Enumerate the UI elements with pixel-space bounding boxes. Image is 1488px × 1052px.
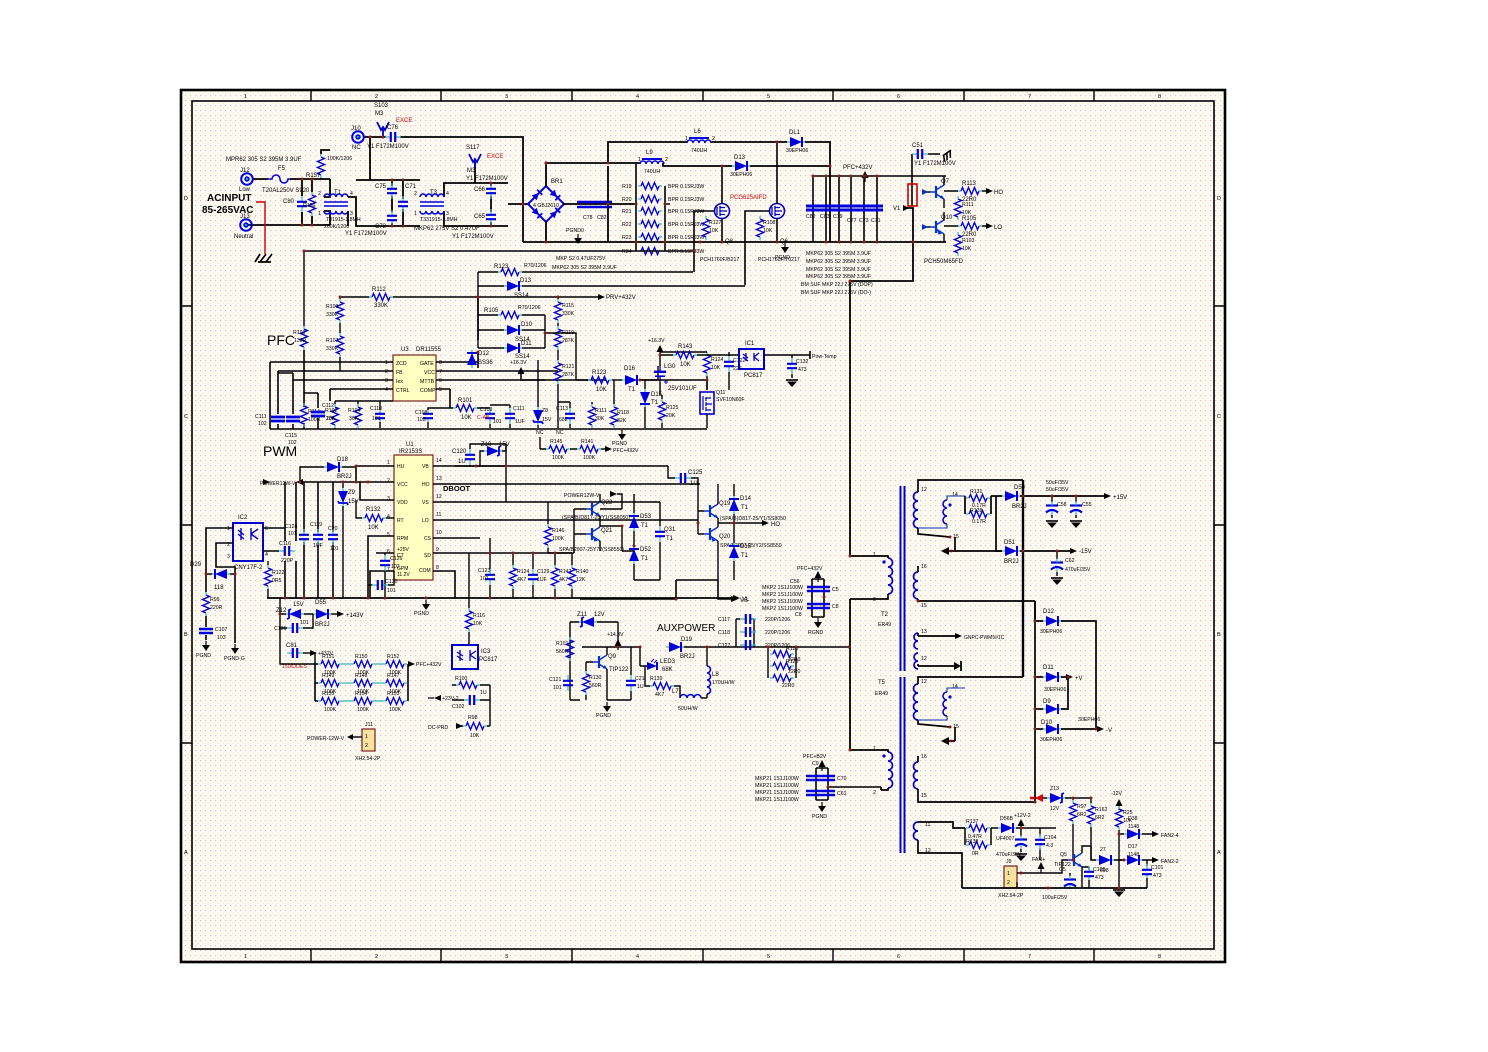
svg-text:3: 3 <box>505 954 508 960</box>
svg-text:3: 3 <box>387 496 390 502</box>
svg-text:CTRL: CTRL <box>396 388 410 394</box>
svg-text:C58: C58 <box>1057 502 1067 508</box>
svg-text:BM SUF MKP 22J 275V (DOP): BM SUF MKP 22J 275V (DOP) <box>801 282 873 288</box>
capacitor C62 <box>1051 551 1091 585</box>
power -12V <box>1111 791 1123 810</box>
svg-text:PWM: PWM <box>263 443 297 459</box>
svg-text:B: B <box>1217 632 1221 638</box>
PGND0 label <box>566 228 584 244</box>
red earth wire <box>256 202 265 254</box>
inductor L6 <box>685 129 715 154</box>
capacitor C80 <box>283 196 307 212</box>
svg-text:C61: C61 <box>837 791 847 797</box>
svg-text:+16.3V: +16.3V <box>648 338 665 344</box>
wire stage1 box <box>348 180 508 226</box>
svg-text:1UF: 1UF <box>515 419 525 425</box>
svg-text:D56B: D56B <box>1000 816 1014 822</box>
svg-text:DC-PRD: DC-PRD <box>428 725 448 731</box>
svg-text:R140: R140 <box>576 569 589 575</box>
svg-text:R162: R162 <box>1095 807 1108 813</box>
svg-text:R24: R24 <box>622 249 632 255</box>
svg-text:C111: C111 <box>513 406 525 412</box>
svg-text:PFC+432V: PFC+432V <box>613 448 639 454</box>
net DC-PRD <box>428 723 463 731</box>
svg-text:Q11: Q11 <box>716 390 726 396</box>
svg-text:12K: 12K <box>576 577 586 583</box>
svg-text:Q20: Q20 <box>719 534 731 540</box>
power +14.3V <box>607 632 624 650</box>
svg-text:4K7: 4K7 <box>517 577 526 583</box>
svg-text:Iex: Iex <box>396 379 403 385</box>
diode D19 <box>666 637 707 660</box>
svg-text:Q31: Q31 <box>664 527 676 533</box>
svg-text:14: 14 <box>952 492 958 498</box>
wires aux left <box>570 622 640 700</box>
resistor R151 <box>318 654 342 676</box>
svg-text:C82: C82 <box>597 215 607 221</box>
capacitor C20 <box>328 526 339 552</box>
capacitor C71 <box>398 184 417 212</box>
svg-text:22R0: 22R0 <box>788 669 801 675</box>
cap stack box wires <box>707 619 849 647</box>
svg-text:R151: R151 <box>322 654 335 660</box>
svg-text:MKP21 1S1J100W: MKP21 1S1J100W <box>755 790 799 796</box>
svg-text:MKP21 1S1J100W: MKP21 1S1J100W <box>755 783 799 789</box>
T5 secondary 12 <box>914 677 1024 727</box>
svg-text:7: 7 <box>387 567 390 573</box>
svg-text:8: 8 <box>439 360 442 366</box>
bulk cap bank box <box>813 176 946 242</box>
svg-text:PGND: PGND <box>612 441 627 447</box>
svg-text:C119: C119 <box>310 522 322 528</box>
svg-text:C9: C9 <box>812 761 819 767</box>
red missing part box <box>908 184 917 206</box>
svg-text:R123: R123 <box>592 370 607 376</box>
svg-text:Q7: Q7 <box>941 179 950 185</box>
svg-text:473: 473 <box>1095 875 1104 881</box>
svg-text:C121: C121 <box>549 677 562 683</box>
svg-text:C72: C72 <box>375 224 387 230</box>
opto IC1 <box>739 341 764 379</box>
svg-text:IR2153S: IR2153S <box>399 449 422 455</box>
svg-text:FAN+: FAN+ <box>1032 857 1045 863</box>
inductor L8 <box>707 647 735 698</box>
svg-text:C8: C8 <box>795 612 802 618</box>
svg-text:D55: D55 <box>315 600 327 606</box>
wires U1 left <box>300 466 394 598</box>
svg-text:D52: D52 <box>640 547 652 553</box>
diode D38 <box>1119 816 1179 839</box>
svg-text:T20AL250V S920: T20AL250V S920 <box>262 188 310 194</box>
svg-text:S103: S103 <box>374 103 389 109</box>
svg-text:SVF10N60F: SVF10N60F <box>716 397 745 403</box>
svg-text:6: 6 <box>439 378 442 384</box>
svg-text:4: 4 <box>636 954 639 960</box>
svg-text:BPR 0.15RJ3W: BPR 0.15RJ3W <box>668 235 704 241</box>
svg-text:Z13: Z13 <box>1050 786 1059 792</box>
svg-text:MKP62 305 S2 395M 3.9UF: MKP62 305 S2 395M 3.9UF <box>806 259 871 265</box>
svg-text:2: 2 <box>365 743 368 749</box>
svg-text:SS14: SS14 <box>514 293 529 299</box>
bridge BR1 <box>528 179 564 222</box>
svg-text:102: 102 <box>258 421 267 427</box>
svg-text:330K: 330K <box>326 312 339 318</box>
svg-text:C76: C76 <box>387 125 399 131</box>
svg-text:R107: R107 <box>326 338 339 344</box>
svg-text:L6: L6 <box>694 129 701 135</box>
resistor R145 <box>536 430 577 461</box>
svg-text:2: 2 <box>375 954 378 960</box>
svg-text:R139: R139 <box>650 676 663 682</box>
svg-text:C105: C105 <box>1093 867 1106 873</box>
svg-text:MKP62 305 S2 395M 3.9UF: MKP62 305 S2 395M 3.9UF <box>806 274 871 280</box>
svg-text:R121: R121 <box>562 364 575 370</box>
svg-text:FB: FB <box>396 370 403 376</box>
resistor matrix rails <box>315 664 408 701</box>
transformer T2 core <box>901 486 905 671</box>
svg-text:C126: C126 <box>390 556 403 562</box>
svg-text:220P: 220P <box>281 558 294 564</box>
svg-text:L7: L7 <box>672 689 679 695</box>
svg-text:L9: L9 <box>646 150 653 156</box>
svg-text:R97: R97 <box>1077 804 1087 810</box>
svg-text:T1: T1 <box>741 553 749 559</box>
resistor R111 <box>955 196 974 220</box>
svg-text:A: A <box>1217 850 1221 856</box>
svg-text:ER49: ER49 <box>878 622 891 628</box>
svg-text:T1: T1 <box>641 523 649 529</box>
zone tick marks and labels <box>181 90 1225 962</box>
svg-text:30EPH06: 30EPH06 <box>1044 687 1066 693</box>
net VL <box>733 595 750 603</box>
svg-text:C8: C8 <box>832 604 839 610</box>
svg-text:30EPH06: 30EPH06 <box>1078 717 1100 723</box>
ic U3 <box>385 347 442 401</box>
svg-text:1148: 1148 <box>1128 824 1139 830</box>
svg-text:103: 103 <box>417 417 426 423</box>
svg-text:U1: U1 <box>406 442 414 448</box>
svg-text:MKP S2 0.47UF275V: MKP S2 0.47UF275V <box>556 256 606 262</box>
diode D15b <box>729 523 752 570</box>
svg-text:SPA/B2907-25Y72(SS8550): SPA/B2907-25Y72(SS8550) <box>559 547 624 553</box>
svg-text:BR2J: BR2J <box>315 622 330 628</box>
svg-text:102: 102 <box>391 564 400 570</box>
net POWER12W-V right <box>564 491 622 509</box>
svg-text:C122: C122 <box>718 643 731 649</box>
connector J11 <box>307 722 381 762</box>
svg-text:R157: R157 <box>306 173 321 179</box>
svg-text:C108: C108 <box>415 410 428 416</box>
resistor R126 <box>770 646 801 663</box>
svg-text:BR2J: BR2J <box>1004 559 1019 565</box>
svg-text:30K: 30K <box>595 416 605 422</box>
svg-text:200K/1206: 200K/1206 <box>324 224 349 230</box>
svg-text:A: A <box>184 850 188 856</box>
resistor R154 <box>342 691 375 713</box>
power PFC+432V snub <box>797 566 823 582</box>
svg-text:BPR 0.15RJ3W: BPR 0.15RJ3W <box>668 209 704 215</box>
svg-text:R99: R99 <box>210 597 220 603</box>
connector J9 fan <box>998 859 1068 899</box>
svg-text:MKP2 1S1J100W: MKP2 1S1J100W <box>762 606 803 612</box>
svg-text:PFC+432V: PFC+432V <box>416 662 442 668</box>
svg-text:R141: R141 <box>581 439 594 445</box>
svg-text:Y1 F172M100V: Y1 F172M100V <box>452 234 494 240</box>
svg-text:13: 13 <box>921 629 927 635</box>
vertical anode bus <box>1034 601 1036 802</box>
port J10 <box>351 126 364 151</box>
svg-text:-12V: -12V <box>1111 791 1122 797</box>
PGND c70 <box>812 802 827 820</box>
transistor Q5 <box>1054 846 1091 888</box>
svg-text:D15: D15 <box>740 544 752 550</box>
bottom row: capacitor C123 <box>478 538 495 598</box>
svg-text:R146: R146 <box>552 528 565 534</box>
svg-text:DL1: DL1 <box>789 130 801 136</box>
svg-text:NC: NC <box>536 430 544 436</box>
svg-text:220R: 220R <box>210 605 223 611</box>
diode D50 <box>1002 485 1027 510</box>
svg-text:D13: D13 <box>520 278 532 284</box>
svg-text:MTTB: MTTB <box>420 379 435 385</box>
capacitor C61 <box>806 791 847 797</box>
resistor R152 <box>375 654 442 676</box>
resistor R105c <box>478 305 545 319</box>
svg-text:D38: D38 <box>1128 816 1138 822</box>
svg-text:MKP62 275V S2 0.47UF: MKP62 275V S2 0.47UF <box>414 226 480 232</box>
svg-text:D15: D15 <box>651 392 663 398</box>
svg-text:101: 101 <box>288 531 297 537</box>
diode D13b <box>478 278 745 299</box>
resistor R155 <box>318 691 342 713</box>
port J13 <box>234 214 253 240</box>
svg-text:1: 1 <box>318 211 321 217</box>
svg-text:HO: HO <box>422 482 430 488</box>
svg-text:R23: R23 <box>622 235 632 241</box>
svg-text:100K: 100K <box>357 707 370 713</box>
wire N line <box>246 211 330 225</box>
resistor R112 <box>340 287 478 309</box>
svg-text:1: 1 <box>385 360 388 366</box>
svg-text:J11: J11 <box>365 722 373 728</box>
svg-text:5: 5 <box>767 94 770 100</box>
svg-text:9: 9 <box>436 547 439 553</box>
svg-text:Q10: Q10 <box>941 215 953 221</box>
svg-text:D51: D51 <box>1004 540 1016 546</box>
svg-text:T1: T1 <box>651 400 659 406</box>
opto IC3 <box>452 645 498 669</box>
svg-text:(SPA/B)D817-25/Y1(SS8050): (SPA/B)D817-25/Y1(SS8050) <box>562 515 630 521</box>
svg-text:100K: 100K <box>552 455 565 461</box>
T5 secondary 16 <box>914 754 1036 802</box>
diode D51 <box>955 540 1070 565</box>
bottom rail fan <box>962 887 1147 889</box>
svg-text:1: 1 <box>365 734 368 740</box>
power +16.3V pfc <box>510 360 545 380</box>
svg-text:15: 15 <box>953 534 959 540</box>
bottom rail <box>523 241 946 243</box>
svg-text:MPR62 305 S2 395M 3.9UF: MPR62 305 S2 395M 3.9UF <box>226 157 302 163</box>
svg-text:R124: R124 <box>711 357 724 363</box>
svg-text:PCH50M65FD: PCH50M65FD <box>924 259 964 265</box>
svg-text:10K: 10K <box>711 365 721 371</box>
svg-text:VCC: VCC <box>424 370 435 376</box>
svg-text:5: 5 <box>439 387 442 393</box>
resistor R118 <box>611 380 630 428</box>
svg-text:T1: T1 <box>741 505 749 511</box>
svg-text:Z8: Z8 <box>542 408 548 414</box>
svg-text:D14: D14 <box>740 496 752 502</box>
choke T1 <box>318 190 361 230</box>
svg-text:12: 12 <box>925 848 931 854</box>
svg-text:15: 15 <box>921 603 927 609</box>
capacitor C70 <box>806 761 847 782</box>
svg-text:BPR 0.15RJ3W: BPR 0.15RJ3W <box>668 197 704 203</box>
transistor Q10 <box>922 212 953 242</box>
svg-text:R156: R156 <box>303 203 316 209</box>
resistor R143 <box>660 344 739 368</box>
svg-text:C81: C81 <box>286 643 298 649</box>
svg-text:+V: +V <box>1075 676 1083 682</box>
wire C81 to matrix <box>280 653 315 664</box>
svg-text:R112: R112 <box>372 287 387 293</box>
svg-text:C5: C5 <box>832 587 839 593</box>
svg-text:UF4007: UF4007 <box>996 836 1015 842</box>
T5 primary winding <box>873 746 893 796</box>
resistor R127 <box>703 216 722 240</box>
capacitor C81 <box>282 643 334 670</box>
resistor R101b <box>556 637 574 661</box>
svg-text:COMP: COMP <box>420 388 436 394</box>
svg-text:T1: T1 <box>666 536 674 542</box>
svg-text:0.17R: 0.17R <box>972 519 986 525</box>
svg-text:R19: R19 <box>622 184 632 190</box>
capacitor C56 <box>790 579 839 593</box>
resistor R104 <box>348 401 362 428</box>
svg-text:50uF/35V: 50uF/35V <box>1046 480 1069 486</box>
transistor Q7 <box>922 176 950 208</box>
svg-text:CNY17F-2: CNY17F-2 <box>234 565 263 571</box>
svg-text:GATE: GATE <box>420 361 434 367</box>
port J12 <box>239 168 253 193</box>
svg-text:MKP21 1S1J100W: MKP21 1S1J100W <box>755 776 799 782</box>
svg-text:ER49: ER49 <box>875 691 888 697</box>
resistor R20 <box>622 196 704 204</box>
resistor R108 <box>757 216 776 240</box>
svg-text:RGND: RGND <box>808 630 824 636</box>
zener Z9 <box>338 482 359 598</box>
diode D55 <box>313 600 364 628</box>
svg-text:13: 13 <box>436 476 442 482</box>
svg-text:101: 101 <box>300 620 309 626</box>
svg-text:R153: R153 <box>387 691 400 697</box>
svg-text:101: 101 <box>372 416 381 422</box>
svg-text:M3: M3 <box>467 168 476 174</box>
svg-text:NC: NC <box>556 430 564 436</box>
diode D52 <box>629 546 652 580</box>
svg-text:12: 12 <box>921 679 927 685</box>
svg-text:Q21: Q21 <box>601 528 613 534</box>
svg-text:U3: U3 <box>401 347 409 353</box>
resistor R141 <box>577 439 639 461</box>
capacitor C122b <box>724 352 746 390</box>
svg-text:T5: T5 <box>878 680 886 686</box>
svg-text:BPR 0.15RJ3W: BPR 0.15RJ3W <box>668 184 704 190</box>
PGND pfc <box>612 430 627 447</box>
svg-text:1U: 1U <box>637 684 644 690</box>
bulk capacitors C77 C73 C71 <box>847 218 881 224</box>
resistor R107 <box>326 333 344 371</box>
zener Z12 <box>276 598 313 655</box>
svg-text:15V: 15V <box>499 442 510 448</box>
svg-text:VCC: VCC <box>397 482 408 488</box>
svg-text:PFC: PFC <box>267 332 295 348</box>
svg-text:30EPH06: 30EPH06 <box>786 148 808 154</box>
svg-text:VS: VS <box>740 598 748 604</box>
diode D17b <box>640 380 663 428</box>
svg-text:Q19: Q19 <box>719 501 731 507</box>
svg-text:4: 4 <box>636 94 639 100</box>
svg-text:101: 101 <box>493 419 502 425</box>
svg-text:330K: 330K <box>374 303 388 309</box>
capacitor C51 <box>912 143 956 206</box>
svg-text:1: 1 <box>414 211 417 217</box>
resistor R125 <box>659 395 679 428</box>
transistor Q22 <box>562 494 630 526</box>
transistor Q19 <box>698 484 786 523</box>
svg-text:C115: C115 <box>285 433 297 439</box>
svg-text:0R: 0R <box>972 851 979 857</box>
border frame outer <box>181 90 1225 962</box>
svg-text:D12: D12 <box>478 351 490 357</box>
capacitor C132 <box>786 355 809 387</box>
svg-text:C109: C109 <box>480 407 493 413</box>
svg-text:82K: 82K <box>617 418 627 424</box>
svg-text:Q9: Q9 <box>608 654 617 660</box>
svg-text:Y1 F172M100V: Y1 F172M100V <box>345 231 387 237</box>
svg-text:3: 3 <box>227 554 230 560</box>
svg-text:100K: 100K <box>389 707 402 713</box>
svg-text:D53: D53 <box>640 514 652 520</box>
diode D13 <box>730 155 752 178</box>
svg-text:+143V: +143V <box>346 613 364 619</box>
resistor R22 <box>622 221 704 229</box>
svg-text:27: 27 <box>1100 847 1106 853</box>
led LED3 <box>640 647 676 673</box>
svg-text:LO: LO <box>422 518 429 524</box>
svg-text:AUXPOWER: AUXPOWER <box>657 623 715 634</box>
svg-text:C20: C20 <box>328 526 338 532</box>
svg-text:PFC+432V: PFC+432V <box>797 566 823 572</box>
svg-text:R127: R127 <box>709 220 722 226</box>
capacitor C112 <box>311 403 335 422</box>
svg-text:R111: R111 <box>595 408 607 414</box>
T5 fan winding <box>914 822 966 888</box>
svg-text:R138: R138 <box>966 839 979 845</box>
bottom rail pwm <box>267 597 733 599</box>
svg-text:R131: R131 <box>970 489 983 495</box>
diode D14 <box>729 484 752 523</box>
resistor R101 <box>450 398 490 421</box>
capacitor C76 <box>367 125 409 150</box>
svg-text:3: 3 <box>385 378 388 384</box>
svg-text:R154: R154 <box>355 691 368 697</box>
svg-text:50UH/W: 50UH/W <box>678 706 698 712</box>
PGND aux <box>596 702 611 719</box>
C70 block wires <box>816 768 881 800</box>
svg-text:101: 101 <box>553 685 562 691</box>
svg-text:D: D <box>184 196 188 202</box>
